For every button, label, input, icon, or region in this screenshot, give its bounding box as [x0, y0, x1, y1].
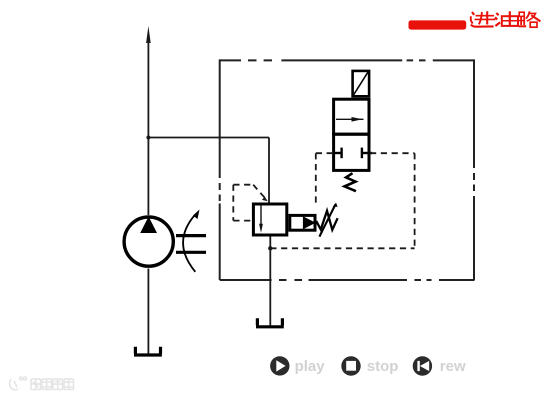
svg-text:rew: rew [440, 358, 466, 375]
svg-text:stop: stop [367, 358, 399, 375]
svg-text:play: play [295, 358, 326, 375]
